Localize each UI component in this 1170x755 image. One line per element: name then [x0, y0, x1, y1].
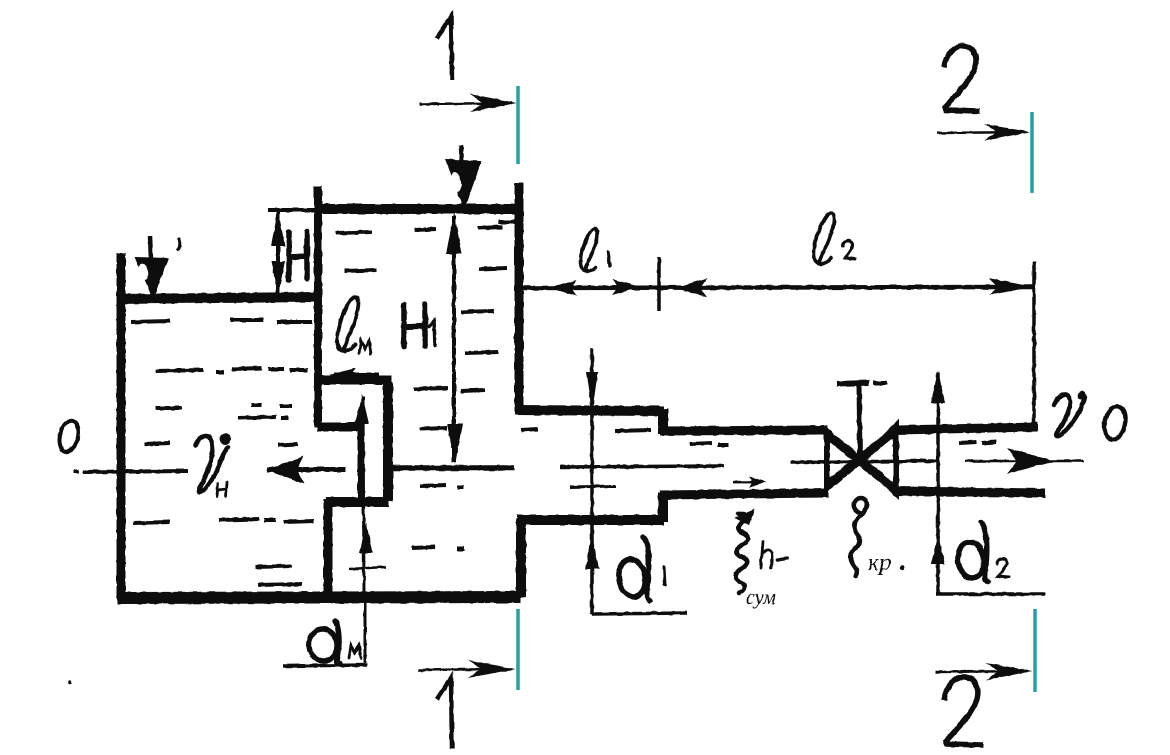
valve X stroke 2: [827, 430, 896, 486]
section arrow 2 bottom head: [986, 663, 1033, 680]
label 0 right: [1101, 404, 1128, 442]
node axis left dot: [74, 469, 79, 473]
flow arrow left shaft: [267, 467, 345, 472]
label Vn dot: [220, 434, 231, 445]
label d1 subscript: [664, 567, 665, 585]
l1 blob arrow b: [612, 279, 641, 295]
speck bottom left: [68, 680, 72, 684]
small arrow in pipe2 head: [749, 476, 766, 488]
label l2 subscript: [843, 241, 855, 259]
vessel left wall: [314, 186, 322, 428]
hatch dashes vessel lower: [412, 485, 464, 549]
section line 1 top (teal): [516, 86, 520, 164]
section arrow 2 bottom shaft: [936, 671, 1028, 672]
dimension d2 line: [936, 372, 940, 594]
label digit 1 bottom: [437, 678, 452, 749]
label xi sum squiggle: [736, 513, 748, 593]
water level mark nabla2: [447, 146, 480, 208]
apostrophe mark: [177, 238, 180, 251]
pipe1 bottom wall: [517, 515, 664, 525]
l2 right extension line: [1032, 262, 1036, 423]
outlet arrow v head: [1007, 448, 1054, 474]
section arrow 1 top shaft: [419, 103, 512, 104]
hatch dashes tank row2b: [156, 370, 203, 371]
section arrow 1 top head: [470, 94, 517, 112]
dot after kr: [900, 566, 904, 570]
water level mark nabla1: [136, 236, 167, 297]
section line 2 bottom (teal): [1033, 609, 1037, 692]
hatch dashes pipe2: [690, 443, 729, 445]
nozzle top left arrow shaft: [334, 373, 379, 377]
nozzle box bottom: [317, 423, 362, 432]
axis centerline through valve: [790, 461, 938, 462]
label xi kr squiggle: [851, 498, 867, 576]
tick between l1 and l2: [657, 257, 661, 311]
valve T-bar dash: [873, 381, 887, 385]
valve V1 right triangle: [862, 426, 896, 493]
wire step up to pipe bottom: [516, 518, 526, 597]
nozzle tube left wall: [358, 429, 365, 500]
dimension H1 line: [452, 216, 456, 462]
label digit 1 top: [437, 17, 452, 80]
hatch dashes pipe1: [521, 429, 651, 431]
hatch dashes tank row5: [255, 566, 302, 585]
nozzle box top: [318, 376, 392, 385]
label H1: [404, 304, 425, 347]
valve V1 left triangle: [827, 432, 860, 488]
axis shelf line from nozzle to vessel wall: [390, 465, 514, 471]
section line 2 top (teal): [1030, 112, 1034, 193]
tank bottom: [117, 597, 521, 598]
label d1 script d: [616, 537, 650, 601]
valve T-bar: [837, 383, 869, 384]
hatch dashes tank row1: [131, 320, 312, 322]
d2 arrow up top: [931, 370, 945, 403]
nozzle box right wall: [383, 382, 393, 501]
axis 0-0 left segment: [83, 471, 188, 472]
hatch dashes tank row3: [144, 405, 298, 445]
dn line below tank: [364, 597, 367, 663]
section arrow 1 bottom shaft: [418, 669, 510, 670]
hatch dashes tank row2: [155, 368, 308, 408]
wire step at x663 bottom: [658, 493, 668, 522]
nozzle arrow up inside box: [355, 394, 369, 424]
section arrow 2 top shaft: [937, 132, 1025, 133]
dimension H line: [276, 212, 280, 294]
d2 tick on axis: [910, 460, 926, 461]
H1 arrow up: [446, 213, 462, 254]
label H1 subscript 1: [429, 321, 435, 345]
hatch dashes vessel row1: [336, 222, 515, 233]
small arrow in pipe2 shaft: [733, 481, 757, 484]
label d2 script d: [956, 522, 988, 582]
d1 arrow down: [586, 372, 598, 412]
dn tick: [349, 567, 386, 569]
tank T1 left wall: [117, 253, 126, 598]
d1 tick on axis: [570, 486, 616, 487]
hatch dashes vessel row5: [414, 388, 485, 429]
valve X stroke 1: [827, 434, 896, 490]
node axis-wall crossing: [121, 462, 122, 480]
label lm script ell: [337, 297, 358, 352]
l2 blob arrow left: [675, 278, 707, 297]
flow arrow left head: [266, 456, 304, 484]
svg-text:кр: кр: [868, 550, 891, 576]
dimension line l1-l2: [519, 287, 1035, 288]
nozzle arrow up in tube: [359, 522, 373, 553]
dimension dn line through nozzle: [363, 396, 364, 594]
label digit 2 bottom: [944, 677, 983, 745]
hatch dashes vessel row4: [465, 352, 498, 353]
vessel right wall upper (section 1-1 plane): [515, 183, 524, 412]
label l1 script ell: [580, 229, 597, 271]
axis centerline outlet: [965, 460, 1084, 463]
label dn subscript m: [349, 645, 361, 658]
dimension d1 line: [590, 348, 594, 614]
H reference line: [268, 208, 318, 212]
hatch dashes vessel row2: [344, 268, 507, 271]
axis centerline in pipe1: [560, 466, 724, 467]
label digit 2 top: [944, 46, 980, 111]
label xi sum top serif: [734, 509, 755, 525]
label xi sum subscript h: [761, 541, 772, 568]
l1 blob arrow a: [549, 280, 577, 296]
hatch dashes tank row4: [133, 519, 314, 523]
label l2 script ell: [814, 213, 835, 264]
svg-text:сум: сум: [746, 587, 776, 609]
label v outlet script: [1054, 393, 1084, 436]
pipe3 bottom wall after valve: [895, 491, 1045, 493]
label Vn script v: [195, 436, 228, 492]
tank T1 water surface: [117, 297, 320, 299]
label 0 left: [57, 418, 82, 453]
pipe1 top wall: [515, 410, 664, 411]
pipe3 top wall after valve: [896, 427, 1038, 430]
pipe2 bottom wall: [660, 493, 828, 495]
vessel top line: [315, 204, 520, 214]
hatch dashes vessel row3: [461, 311, 494, 312]
H1 arrow down: [447, 424, 463, 464]
nozzle lower shelf: [326, 497, 389, 507]
nozzle top left arrow head: [329, 368, 356, 381]
H arrow up: [271, 210, 285, 246]
d1 arrow up: [585, 535, 599, 569]
H arrow down: [271, 261, 285, 296]
label xi sum subscript tick: [777, 558, 788, 560]
vessel right wall lower: [517, 519, 526, 597]
section line 1 bottom (teal): [516, 609, 520, 690]
wall below nozzle: [324, 499, 333, 597]
section arrow 2 top head: [984, 124, 1030, 141]
label Vn subscript n: [217, 482, 227, 497]
pipe2 top wall: [660, 430, 828, 431]
label lm subscript m: [359, 341, 371, 354]
hatch dash-dot outlet: [959, 442, 996, 443]
d2 bracket line: [936, 592, 1045, 596]
section arrow 1 bottom head: [468, 660, 515, 678]
d2 arrow up bottom: [931, 535, 945, 564]
label H: [289, 231, 307, 280]
label l1 subscript: [608, 252, 610, 266]
label dn script d: [307, 621, 340, 664]
d1 bracket line: [592, 613, 687, 614]
label d2 subscript: [997, 559, 1009, 577]
valve stem: [859, 385, 860, 458]
dn bracket underline: [283, 665, 367, 666]
l2 blob arrow right: [989, 278, 1033, 295]
wire step at x663 top: [658, 409, 668, 434]
